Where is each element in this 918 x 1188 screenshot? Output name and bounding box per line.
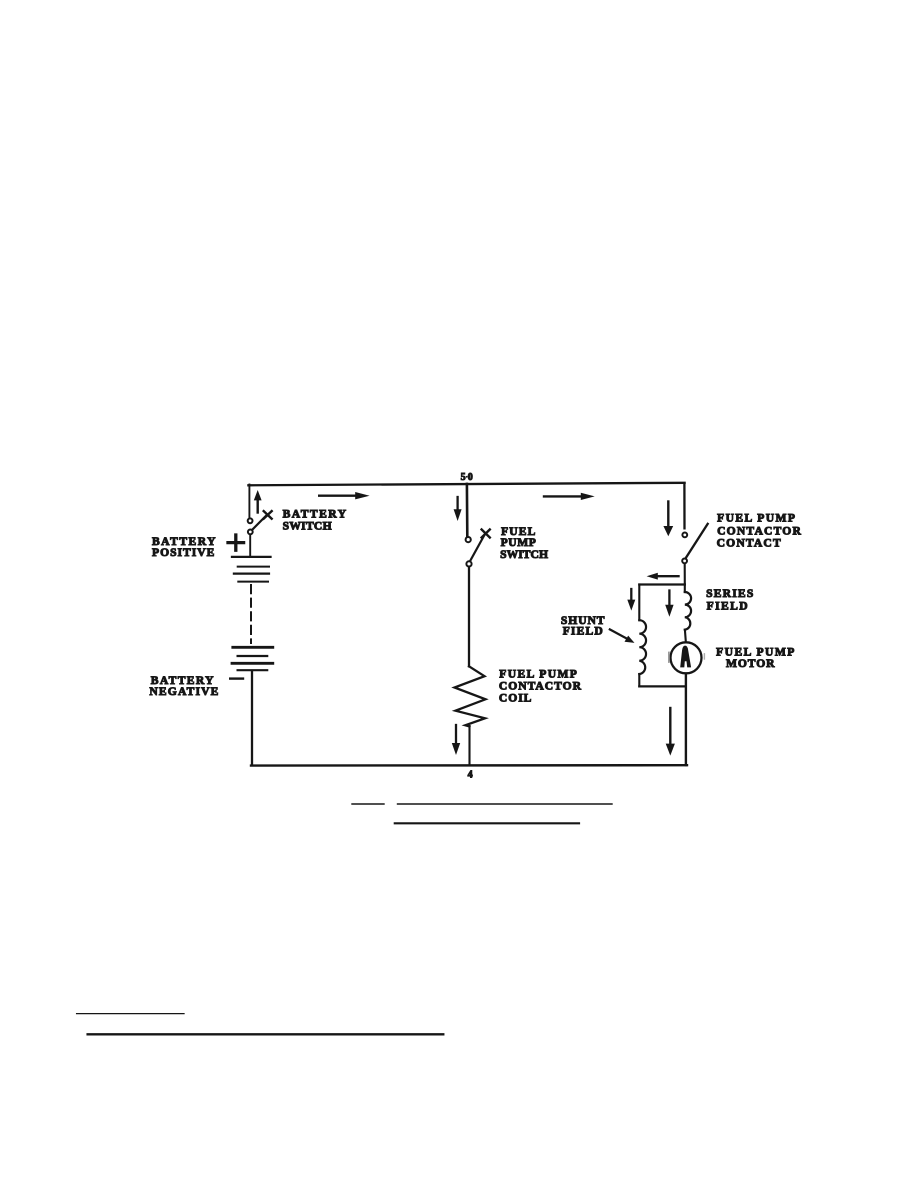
wire junction to series coil [684,585,686,593]
caption underline short [352,803,384,805]
svg-text:CONTACTOR: CONTACTOR [717,524,801,537]
svg-text:FIELD: FIELD [707,600,748,613]
arrow left into shunt branch [647,573,679,580]
wire coil to bottom bus [468,726,470,765]
label FUEL PUMP SWITCH [500,525,548,561]
battery B2 plate 2 [238,655,268,657]
battery switch contact lower [248,530,253,535]
battery B2 plate 4 [238,669,268,671]
coil shunt field [639,620,646,674]
wire shunt branch upper [638,585,640,621]
wire shunt bottom horizontal [639,685,685,687]
footnote rule short [77,1013,184,1015]
arrow right flow left section [319,492,369,499]
label FUEL PUMP MOTOR [716,646,794,671]
wire shunt branch lower [638,674,640,686]
footnote rule long [88,1033,444,1035]
battery switch X terminal [264,511,272,519]
battery switch contact upper [248,518,253,523]
svg-text:NEGATIVE: NEGATIVE [149,685,218,698]
label BATTERY NEGATIVE [149,674,218,698]
svg-text:PUMP: PUMP [501,536,536,549]
svg-text:SWITCH: SWITCH [283,520,332,533]
contactor contact blade [686,524,708,558]
label SERIES FIELD [706,587,753,613]
arrow up current [254,490,262,513]
wire top bus [248,483,684,486]
fuel pump switch contact upper [466,537,471,542]
battery B2 plate 1 [233,646,273,649]
svg-text:FUEL PUMP: FUEL PUMP [717,512,795,525]
fuel pump switch X terminal [482,530,490,538]
battery B2 plate 3 [232,662,273,665]
wire contact to junction [684,564,686,585]
fuel pump switch blade [470,535,484,561]
motor M1 circle [671,642,702,673]
wire motor to bottom bus [685,674,687,765]
wire bottom bus [251,764,687,767]
battery positive plus sign [228,535,244,550]
battery B1 plate 1 [232,556,271,558]
contactor contact lower [682,559,687,564]
battery B1 plate 4 [238,581,268,583]
coil series field [685,592,691,630]
node 50 [461,472,473,483]
arrow down out of coil [452,725,460,755]
caption underline second row [395,822,579,824]
wire junction horizontal [639,583,685,585]
node 4 [468,770,473,781]
battery switch blade [252,516,266,530]
svg-text:SERIES: SERIES [706,587,753,600]
wire battery link dashed [250,585,252,643]
label SHUNT FIELD [561,614,605,638]
battery B1 plate 3 [234,572,269,574]
wire switch to coil [468,567,470,666]
wire series coil to motor [684,630,687,642]
svg-text:CONTACT: CONTACT [717,537,781,550]
motor armature A glyph [680,646,691,668]
arrow down shunt current [627,589,635,611]
arrow down return current [666,708,675,756]
svg-text:SWITCH: SWITCH [500,548,548,561]
contactor contact upper [682,533,687,538]
svg-text:5: 5 [461,472,466,483]
svg-text:4: 4 [468,770,473,781]
arrow down into contactor contact [663,502,673,537]
caption underline long [398,803,613,805]
arrow right flow right section [544,493,595,500]
wire left branch lower [251,671,253,765]
arrow down series current [665,591,673,617]
battery negative minus sign [230,677,243,679]
label BATTERY POSITIVE [152,535,216,559]
resistor fuel pump contactor coil [455,666,486,726]
scan mark left of motor [668,653,670,663]
label FUEL PUMP CONTACTOR COIL [499,667,582,704]
wire right branch upper [683,484,685,529]
svg-text:MOTOR: MOTOR [726,657,775,670]
wire switch to battery [249,535,251,557]
svg-text:POSITIVE: POSITIVE [152,546,215,559]
svg-text:COIL: COIL [499,692,532,705]
arrow shunt field pointer [610,629,635,643]
svg-text:FIELD: FIELD [563,624,603,637]
svg-text:CONTACTOR: CONTACTOR [499,679,582,692]
wire left branch upper [248,485,250,518]
label FUEL PUMP CONTACTOR CONTACT [717,512,802,550]
battery B1 plate 2 [238,566,269,568]
label BATTERY SWITCH [283,508,347,533]
wire middle branch upper [466,484,469,536]
scan mark right of motor [703,654,705,659]
fuel pump switch contact lower [466,561,471,566]
arrow down into fuel pump switch [454,497,462,521]
svg-text:0: 0 [468,472,473,483]
